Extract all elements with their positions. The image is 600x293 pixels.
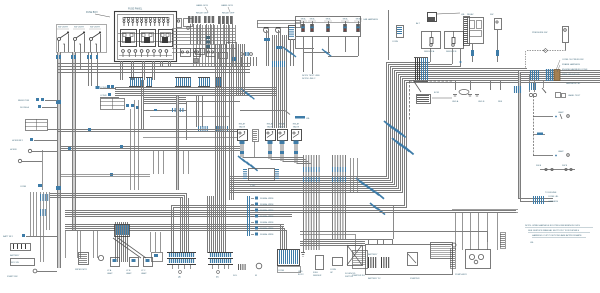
svg-text:CONN: CONN: [100, 87, 107, 89]
svg-text:CONN LBL: CONN LBL: [548, 196, 559, 198]
svg-text:CONN: CONN: [278, 270, 285, 272]
svg-text:LAMP: LAMP: [558, 150, 564, 153]
svg-text:DIODE A: DIODE A: [20, 106, 29, 109]
svg-text:VALVE: VALVE: [279, 126, 286, 129]
svg-text:RESISTOR: RESISTOR: [18, 100, 30, 102]
svg-text:HORN RLY: HORN RLY: [12, 140, 24, 142]
svg-text:HARNESS LBL: HARNESS LBL: [566, 82, 581, 85]
svg-text:SEE SERVICE MANUAL SECTION 7 F: SEE SERVICE MANUAL SECTION 7 FOR DETAILS: [528, 229, 580, 232]
svg-text:NOTE LINE 2: NOTE LINE 2: [302, 78, 316, 80]
svg-text:LP C: LP C: [141, 270, 146, 272]
svg-text:SW A: SW A: [326, 18, 331, 21]
svg-text:VALVE: VALVE: [267, 126, 274, 129]
svg-text:FUEL: FUEL: [313, 272, 319, 274]
svg-text:STARTER: STARTER: [410, 277, 420, 280]
svg-text:PUMP ASSY: PUMP ASSY: [455, 273, 468, 276]
svg-text:VALVE: VALVE: [293, 126, 300, 129]
svg-text:GND B: GND B: [478, 101, 485, 103]
svg-text:WIPER MTR: WIPER MTR: [75, 269, 87, 271]
svg-text:CAB HARNESS: CAB HARNESS: [363, 18, 379, 21]
svg-text:RELAY GRP: RELAY GRP: [222, 12, 235, 15]
svg-text:KEY SW: KEY SW: [11, 262, 19, 264]
svg-text:BATTERY: BATTERY: [368, 253, 378, 256]
svg-text:SIGNAL WIRE: SIGNAL WIRE: [260, 215, 274, 218]
svg-text:SW LIGHT: SW LIGHT: [74, 27, 85, 29]
svg-text:RELAY: RELAY: [279, 123, 286, 126]
svg-text:TO ENGINE: TO ENGINE: [545, 192, 557, 194]
svg-text:SENDER: SENDER: [313, 275, 322, 277]
svg-text:CONN: CONN: [392, 41, 398, 43]
svg-text:RELAY: RELAY: [467, 13, 474, 16]
svg-text:CONN: CONN: [20, 186, 27, 188]
svg-text:GND: GND: [298, 271, 303, 273]
svg-text:SIGNAL WIRE: SIGNAL WIRE: [260, 233, 274, 236]
svg-text:START SW: START SW: [7, 275, 18, 278]
svg-text:LABEL BOX: LABEL BOX: [221, 4, 233, 7]
svg-text:RELAY GRP: RELAY GRP: [196, 12, 209, 15]
svg-text:SOLENOID: SOLENOID: [345, 273, 356, 275]
svg-text:ENGINE HARNESS CONN: ENGINE HARNESS CONN: [562, 68, 588, 71]
svg-text:CONN: CONN: [100, 95, 107, 97]
svg-text:SW B: SW B: [562, 165, 568, 167]
svg-text:BATTERY 2X: BATTERY 2X: [368, 277, 381, 280]
svg-text:HARNESS: HARNESS: [548, 200, 559, 203]
svg-text:SW LIGHT: SW LIGHT: [58, 27, 69, 29]
svg-text:WIRE GROUP LBL: WIRE GROUP LBL: [562, 74, 581, 76]
svg-text:CONN: CONN: [330, 269, 336, 271]
svg-text:FRAME HARNESS: FRAME HARNESS: [562, 63, 581, 66]
svg-text:SW A: SW A: [536, 164, 542, 167]
svg-text:SIGNAL WIRE: SIGNAL WIRE: [260, 203, 274, 206]
svg-text:SW: SW: [490, 14, 493, 16]
svg-text:SIGNAL WIRE: SIGNAL WIRE: [260, 227, 274, 230]
svg-text:LAMP: LAMP: [107, 272, 113, 275]
svg-text:M: M: [255, 275, 257, 277]
svg-text:(A): (A): [178, 276, 181, 279]
svg-text:CONN OIL PRESS SW: CONN OIL PRESS SW: [562, 59, 584, 61]
svg-text:ECM: ECM: [434, 92, 439, 94]
svg-text:ALT: ALT: [416, 22, 421, 25]
svg-text:LP B: LP B: [126, 270, 131, 272]
svg-text:LAMP: LAMP: [126, 272, 132, 275]
svg-text:RES: RES: [498, 101, 503, 103]
svg-text:PRESSURE SW: PRESSURE SW: [532, 32, 547, 34]
svg-text:LAMP: LAMP: [558, 111, 564, 114]
svg-text:SIGNAL WIRE: SIGNAL WIRE: [260, 221, 274, 224]
svg-text:GND A: GND A: [452, 100, 459, 103]
svg-text:SENSOR B: SENSOR B: [446, 51, 457, 53]
svg-text:LP A: LP A: [107, 269, 112, 272]
svg-text:SENSOR A: SENSOR A: [424, 50, 435, 53]
svg-text:LAMP: LAMP: [141, 272, 147, 275]
svg-text:LABEL BOX: LABEL BOX: [196, 4, 208, 7]
svg-text:SW LIGHT: SW LIGHT: [90, 27, 101, 29]
svg-text:SWITCH: SWITCH: [345, 276, 353, 278]
svg-text:RELAY: RELAY: [267, 123, 274, 126]
svg-text:BATTERY: BATTERY: [10, 254, 20, 257]
svg-text:FUSE BOX: FUSE BOX: [86, 12, 98, 14]
svg-text:SW A: SW A: [301, 18, 306, 21]
svg-text:FUSE PANEL: FUSE PANEL: [128, 8, 143, 11]
svg-text:SIGNAL WIRE: SIGNAL WIRE: [260, 209, 274, 212]
svg-text:SW A: SW A: [343, 18, 348, 21]
svg-text:HARNESS CLIP POSITIONS ARE APP: HARNESS CLIP POSITIONS ARE APPROXIMATE: [532, 234, 582, 237]
svg-text:NOTE: WIRE HARNESS ROUTING REF: NOTE: WIRE HARNESS ROUTING REFERENCE DWG: [525, 224, 580, 227]
svg-text:BODY: BODY: [298, 274, 304, 276]
svg-text:NOTE TEXT LINE: NOTE TEXT LINE: [302, 75, 320, 77]
svg-text:BATT RLY: BATT RLY: [3, 235, 14, 238]
svg-text:RELAY: RELAY: [239, 123, 246, 126]
svg-text:SW A: SW A: [310, 18, 315, 21]
svg-text:LABEL TEXT: LABEL TEXT: [568, 94, 581, 97]
svg-text:RELAY: RELAY: [293, 123, 300, 126]
svg-text:CTRL: CTRL: [250, 185, 256, 187]
svg-text:SIGNAL WIRE: SIGNAL WIRE: [260, 197, 274, 200]
svg-text:(B): (B): [216, 277, 219, 279]
svg-text:HORN: HORN: [10, 149, 17, 151]
svg-text:VALVE: VALVE: [239, 126, 246, 129]
